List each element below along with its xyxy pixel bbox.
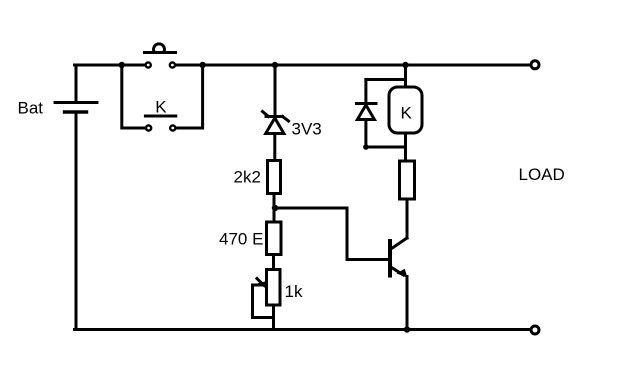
svg-text:1k: 1k bbox=[285, 282, 303, 301]
wire pot to bottom rail bbox=[272, 305, 275, 330]
wire diode branch lower bbox=[364, 121, 367, 147]
wire wiper return to bottom bbox=[253, 285, 274, 318]
wire node A to transistor base bbox=[275, 208, 388, 260]
svg-text:2k2: 2k2 bbox=[234, 168, 261, 187]
wire R1 to node A bbox=[273, 194, 276, 223]
resistor R1 2k2 bbox=[268, 161, 281, 194]
wire left bracket to contact bbox=[122, 65, 145, 128]
wire R2 to pot bbox=[272, 255, 275, 270]
wire diode branch upper bbox=[364, 80, 367, 103]
pushbutton S1 left terminal bbox=[146, 62, 151, 67]
terminal bottom right bbox=[531, 326, 539, 334]
svg-text:3V3: 3V3 bbox=[292, 120, 322, 139]
node junction dot emitter bbox=[404, 326, 410, 332]
wire bottom rail bbox=[75, 328, 532, 331]
node junction dot relay branch bbox=[402, 62, 408, 68]
wire emitter to bottom rail bbox=[406, 277, 409, 330]
resistor R3 bbox=[400, 161, 415, 199]
wire coil top to diode branch bbox=[366, 78, 406, 81]
node junction dot left bracket bbox=[119, 62, 125, 68]
svg-text:K: K bbox=[155, 98, 167, 117]
zener diode D1 3V3 bbox=[263, 112, 289, 134]
svg-text:470 E: 470 E bbox=[219, 230, 263, 249]
relay contact K bar bbox=[145, 115, 175, 118]
wire right bracket to contact bbox=[176, 65, 203, 128]
wire diode return to coil bottom bbox=[366, 146, 406, 149]
wire rail to relay coil bbox=[404, 65, 407, 87]
wire coil to R3 bbox=[404, 133, 407, 161]
resistor R2 470 E bbox=[267, 222, 282, 255]
svg-text:Bat: Bat bbox=[18, 99, 44, 118]
relay coil K body bbox=[389, 87, 422, 133]
battery Bat bbox=[55, 66, 97, 329]
svg-text:K: K bbox=[401, 104, 413, 123]
relay contact K left terminal bbox=[146, 125, 151, 130]
node junction dot diode return bbox=[363, 144, 369, 150]
svg-text:LOAD: LOAD bbox=[519, 165, 565, 184]
potentiometer VR1 wiper arrow bbox=[253, 279, 269, 290]
terminal top right bbox=[531, 61, 539, 69]
pushbutton S1 right terminal bbox=[170, 62, 175, 67]
node junction dot right bracket bbox=[199, 62, 205, 68]
wire R3 to collector bbox=[406, 199, 409, 238]
transistor Q1 bbox=[390, 238, 408, 278]
flyback diode D2 bbox=[357, 104, 377, 120]
node junction dot zener branch bbox=[272, 62, 278, 68]
relay contact K right terminal bbox=[170, 125, 175, 130]
pushbutton S1 cap arc bbox=[154, 44, 165, 51]
pushbutton S1 actuator bar bbox=[145, 51, 176, 54]
node A junction dot divider tap bbox=[272, 205, 278, 211]
potentiometer VR1 1k body bbox=[267, 270, 281, 306]
wire zener to R1 bbox=[273, 135, 276, 161]
wire rail to zener bbox=[274, 65, 277, 115]
wire top rail right segment bbox=[176, 64, 531, 67]
wire top rail left segment bbox=[75, 64, 146, 67]
